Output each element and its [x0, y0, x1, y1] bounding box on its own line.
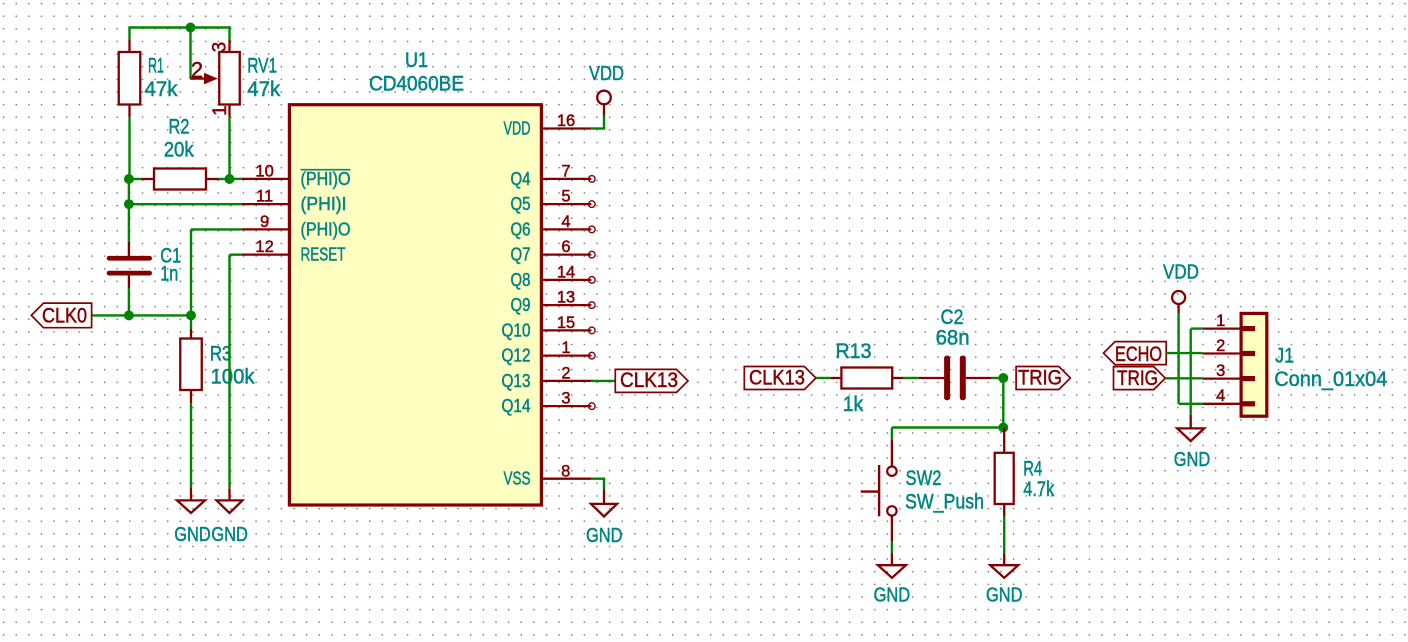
svg-text:13: 13	[557, 289, 575, 307]
svg-text:2: 2	[1216, 337, 1225, 355]
svg-text:R2: R2	[169, 116, 190, 139]
svg-text:3: 3	[210, 42, 231, 53]
svg-text:14: 14	[557, 263, 575, 281]
svg-text:GND: GND	[1174, 448, 1211, 471]
svg-text:SW2: SW2	[906, 467, 942, 490]
svg-text:2: 2	[191, 57, 203, 82]
svg-text:CLK13: CLK13	[620, 368, 678, 392]
svg-text:VDD: VDD	[504, 119, 531, 139]
svg-text:1: 1	[1216, 312, 1225, 330]
svg-text:U1: U1	[405, 49, 428, 72]
svg-text:4: 4	[561, 213, 570, 231]
svg-text:Q5: Q5	[511, 194, 531, 214]
svg-text:10: 10	[255, 162, 273, 180]
svg-text:Conn_01x04: Conn_01x04	[1274, 368, 1387, 391]
svg-text:VSS: VSS	[504, 469, 531, 489]
svg-text:TRIG: TRIG	[1117, 366, 1158, 390]
svg-text:1: 1	[561, 339, 570, 357]
svg-text:8: 8	[561, 463, 570, 481]
svg-text:GND: GND	[211, 523, 248, 546]
svg-text:RESET: RESET	[301, 245, 346, 265]
svg-text:1: 1	[210, 105, 231, 116]
svg-text:(PHI)O: (PHI)O	[301, 169, 351, 189]
svg-text:GND: GND	[174, 523, 211, 546]
svg-text:CLK13: CLK13	[749, 366, 805, 390]
svg-text:3: 3	[1216, 362, 1225, 380]
svg-text:Q6: Q6	[511, 219, 531, 239]
svg-text:1n: 1n	[160, 263, 178, 286]
svg-text:9: 9	[260, 213, 269, 231]
svg-text:R13: R13	[836, 340, 872, 363]
svg-text:47k: 47k	[145, 78, 178, 101]
svg-text:Q10: Q10	[502, 320, 531, 340]
svg-text:Q4: Q4	[511, 169, 531, 189]
svg-text:12: 12	[255, 238, 273, 256]
svg-text:Q9: Q9	[511, 295, 531, 315]
svg-text:4.7k: 4.7k	[1023, 478, 1054, 501]
svg-text:RV1: RV1	[247, 55, 277, 78]
svg-text:VDD: VDD	[589, 62, 624, 85]
svg-text:20k: 20k	[164, 139, 194, 162]
svg-text:GND: GND	[874, 583, 911, 606]
svg-text:15: 15	[557, 314, 575, 332]
svg-text:16: 16	[557, 112, 575, 130]
svg-text:7: 7	[561, 162, 570, 180]
svg-text:11: 11	[256, 188, 273, 206]
svg-text:3: 3	[561, 390, 570, 408]
svg-text:CD4060BE: CD4060BE	[369, 73, 464, 96]
svg-text:(PHI)O: (PHI)O	[301, 219, 351, 239]
svg-text:2: 2	[561, 364, 570, 382]
svg-text:Q7: Q7	[511, 245, 531, 265]
svg-text:GND: GND	[986, 583, 1023, 606]
svg-text:CLK0: CLK0	[42, 303, 87, 327]
svg-text:Q8: Q8	[511, 270, 531, 290]
svg-text:R4: R4	[1023, 457, 1042, 480]
svg-text:R1: R1	[148, 55, 164, 78]
svg-text:100k: 100k	[211, 365, 255, 388]
svg-text:J1: J1	[1275, 345, 1294, 368]
svg-text:ECHO: ECHO	[1115, 342, 1162, 366]
svg-text:SW_Push: SW_Push	[905, 491, 984, 514]
svg-text:5: 5	[561, 188, 570, 206]
svg-text:1k: 1k	[843, 393, 864, 416]
svg-text:4: 4	[1216, 387, 1225, 405]
svg-text:Q12: Q12	[502, 346, 531, 366]
svg-text:TRIG: TRIG	[1018, 366, 1062, 390]
svg-text:Q14: Q14	[502, 396, 531, 416]
svg-text:47k: 47k	[247, 78, 280, 101]
svg-text:R3: R3	[210, 343, 232, 366]
svg-text:68n: 68n	[936, 327, 970, 350]
svg-text:Q13: Q13	[502, 371, 531, 391]
svg-text:6: 6	[561, 238, 570, 256]
svg-text:GND: GND	[586, 524, 623, 547]
svg-text:(PHI)I: (PHI)I	[301, 194, 347, 214]
svg-text:VDD: VDD	[1163, 261, 1199, 284]
